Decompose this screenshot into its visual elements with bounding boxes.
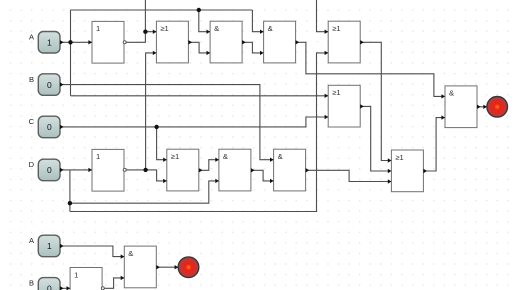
wire D branch vertical [69, 170, 71, 212]
wire NOT-D out to OR-D input2 [126, 170, 166, 181]
NOT gate U13 [67, 268, 105, 290]
input B2 [29, 278, 64, 290]
wire OR-D out to AND-D input1 [199, 160, 219, 171]
wire ANDF out to LED1 [477, 106, 487, 108]
svg-text:1: 1 [96, 152, 100, 161]
svg-text:≥1: ≥1 [332, 24, 340, 33]
svg-text:&: & [223, 152, 228, 161]
OR gate U9 [163, 149, 202, 191]
wire top edge to OR-TR input1 [317, 0, 329, 32]
wire OR1 out to AND1 input2 [188, 42, 210, 53]
input B1 [29, 74, 64, 96]
wire AND1 out to AND2 input2 [242, 42, 264, 53]
wire B2 to NOT-B2 input [60, 287, 70, 289]
junction top rail tee [197, 8, 201, 12]
svg-text:≥1: ≥1 [332, 88, 340, 97]
svg-text:0: 0 [47, 122, 52, 132]
OR gate U6 [325, 85, 364, 127]
wire NOT-D out to OR1 input2 [146, 53, 157, 170]
OR gate U2 [153, 21, 192, 63]
svg-text:1: 1 [47, 241, 52, 251]
input C1 [29, 116, 64, 138]
input A1 [29, 32, 64, 54]
OR gate U5 [325, 21, 364, 63]
svg-text:1: 1 [47, 38, 52, 48]
wire NOT-B2 out to AND-B input2 [105, 278, 125, 288]
wire B to AND-D2 input1 [60, 85, 274, 160]
wire A to NOT1 input [60, 41, 92, 43]
wire AND-B out to LED2 [156, 266, 178, 268]
junction NOT1 out tee [143, 30, 147, 34]
wire top rail drop to AND1 input1 [199, 10, 210, 32]
svg-text:≥1: ≥1 [171, 152, 179, 161]
AND gate U11 [270, 149, 309, 191]
wire A branch vertical to OR-mid row [70, 10, 72, 96]
wire NOT1 out to OR1 input1 [126, 32, 156, 43]
NOT gate U8 [88, 149, 126, 191]
wire AND-D out to AND-D2 input2 [251, 170, 274, 181]
svg-text:A: A [29, 236, 34, 245]
junction NOT-D out tee [143, 168, 147, 172]
junction A output tee [68, 40, 72, 44]
wire D to OR-TR input2 [70, 53, 328, 212]
AND gate U7 [441, 86, 480, 128]
AND gate U3 [207, 21, 246, 63]
wire A2 to AND-B input1 [60, 246, 124, 257]
NOT gate U1 [88, 21, 126, 63]
svg-text:&: & [214, 24, 219, 33]
LED output Y2 [175, 257, 199, 278]
input A2 [29, 235, 64, 257]
svg-text:B: B [29, 279, 34, 288]
svg-text:&: & [128, 249, 133, 258]
AND gate U10 [215, 149, 254, 191]
wire A top rail [71, 9, 253, 11]
svg-text:C: C [29, 117, 35, 126]
wire A row to OR-mid input1 [71, 95, 329, 97]
svg-text:≥1: ≥1 [395, 153, 403, 162]
svg-text:1: 1 [74, 270, 78, 279]
LED output Y1 [483, 97, 507, 118]
svg-text:0: 0 [47, 165, 52, 175]
wire C to OR-mid input2 [60, 117, 328, 127]
AND gate U14 [121, 246, 160, 288]
svg-text:0: 0 [47, 284, 52, 290]
wire D to AND-D input2 [70, 181, 219, 203]
svg-text:B: B [29, 75, 34, 84]
OR gate U12 [388, 150, 427, 192]
svg-text:&: & [278, 152, 283, 161]
wire OR-BR out to ANDF input2 [423, 118, 445, 171]
wire AND-D2 out to OR-BR input3 [306, 170, 392, 181]
junction D lower tee [68, 201, 72, 205]
wire C branch to OR-D input1 [157, 127, 167, 160]
wire OR-TR out to OR-BR input1 [360, 42, 391, 160]
wire OR-mid out to OR-BR input2 [360, 106, 391, 171]
wire AND2 out to ANDF input1 [296, 42, 445, 96]
svg-text:&: & [449, 89, 454, 98]
svg-text:≥1: ≥1 [160, 24, 168, 33]
wire NOT1 out to top edge [144, 0, 146, 32]
input D1 [29, 159, 64, 181]
svg-text:&: & [268, 24, 273, 33]
svg-text:D: D [29, 160, 35, 169]
svg-text:A: A [29, 33, 34, 42]
wire top rail drop to AND2 input1 [252, 10, 263, 32]
AND gate U4 [260, 21, 299, 63]
svg-text:1: 1 [96, 24, 100, 33]
svg-text:0: 0 [47, 80, 52, 90]
junction C tee [154, 125, 158, 129]
wire D to NOT-D input [60, 169, 92, 171]
